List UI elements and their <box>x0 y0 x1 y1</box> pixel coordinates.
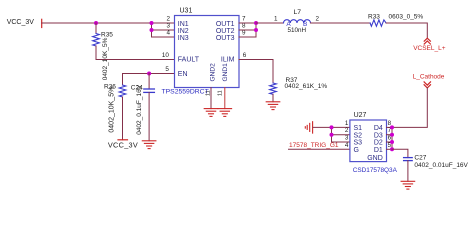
wire L_Cathode to U27 drain bus <box>392 88 427 128</box>
resistor R35 <box>93 23 114 80</box>
svg-text:0402_0.01uF_16V: 0402_0.01uF_16V <box>414 162 468 169</box>
svg-text:VCSEL_L+: VCSEL_L+ <box>413 45 446 52</box>
wire pin2 stub IN1 <box>152 22 175 24</box>
svg-text:11: 11 <box>205 90 211 96</box>
svg-text:17578_TRIG_G1: 17578_TRIG_G1 <box>289 142 339 149</box>
svg-text:OUT2: OUT2 <box>216 28 235 35</box>
junction dot IN bus row2 <box>150 28 154 32</box>
wire pin6 stub D2 <box>387 141 393 143</box>
wire pin9 stub OUT3 <box>239 36 256 38</box>
wire EN pin5 row <box>123 73 175 75</box>
off-page connector VCSEL_L+ <box>413 38 446 52</box>
svg-text:IN1: IN1 <box>178 21 189 28</box>
wire pin3 stub IN2 <box>152 29 175 31</box>
svg-text:4: 4 <box>345 142 349 149</box>
svg-text:10: 10 <box>162 52 170 59</box>
junction dot D bus row2 <box>390 133 394 137</box>
svg-text:VCC_3V: VCC_3V <box>7 19 35 26</box>
ground (left of U27, earth style) <box>305 122 312 133</box>
wire OUT bus vertical <box>255 23 257 37</box>
transistor U27 (MOSFET CSD17578Q3A) <box>350 112 398 174</box>
svg-text:S2: S2 <box>354 132 363 139</box>
svg-text:0402_61K_1%: 0402_61K_1% <box>285 83 328 90</box>
wire pin4 stub IN3 <box>152 36 175 38</box>
junction dot S bus row2 <box>330 133 334 137</box>
junction dot IN bus row1 <box>150 21 154 25</box>
svg-text:3: 3 <box>166 23 170 30</box>
svg-text:TPS2559DRCT: TPS2559DRCT <box>162 89 209 96</box>
svg-text:D4: D4 <box>374 125 383 132</box>
wire ground to S pins bus <box>313 126 350 128</box>
svg-text:U31: U31 <box>180 7 193 14</box>
wire R35 to FAULT pin10 <box>96 59 175 61</box>
svg-text:3: 3 <box>345 135 349 142</box>
svg-text:C27: C27 <box>414 155 426 162</box>
svg-text:ILIM: ILIM <box>221 57 235 64</box>
svg-text:0402_0.1uF_16V: 0402_0.1uF_16V <box>136 84 143 135</box>
wire pin7 stub D3 <box>387 134 393 136</box>
ground (below C24) <box>142 141 156 149</box>
svg-text:8: 8 <box>242 23 246 30</box>
svg-text:L7: L7 <box>294 9 302 16</box>
svg-text:GND: GND <box>367 155 383 162</box>
svg-text:1: 1 <box>345 120 349 127</box>
svg-text:4: 4 <box>166 30 170 37</box>
wire pin8 stub D4 <box>387 126 393 128</box>
wire VCC_3V to IN bus <box>42 22 152 24</box>
wire ILIM pin6 to R37 <box>239 60 273 84</box>
svg-text:6: 6 <box>243 52 247 59</box>
svg-text:L_Cathode: L_Cathode <box>413 74 445 81</box>
svg-text:GND1: GND1 <box>222 63 229 82</box>
ground (below GND2) <box>204 109 218 117</box>
svg-text:EN: EN <box>178 71 188 78</box>
svg-text:11: 11 <box>217 90 223 96</box>
wire pin7 stub OUT1 <box>239 22 256 24</box>
IC U31 (TPS2559DRCT load switch) <box>162 7 240 95</box>
wire L7 to R33 <box>311 22 371 24</box>
svg-text:S3: S3 <box>354 140 363 147</box>
svg-text:2: 2 <box>166 16 170 23</box>
svg-text:0402_10K_5%: 0402_10K_5% <box>109 87 116 133</box>
wire net 17578_TRIG_G1 to G pin <box>289 148 350 150</box>
svg-text:510nH: 510nH <box>288 27 307 34</box>
junction dot OUT bus row1 <box>254 21 258 25</box>
svg-text:CSD17578Q3A: CSD17578Q3A <box>353 167 398 174</box>
svg-text:0603_0_5%: 0603_0_5% <box>389 13 424 20</box>
svg-text:D1: D1 <box>374 147 383 154</box>
wire R33 to VCSEL_L+ <box>386 23 427 38</box>
junction dot C24/EN wire <box>147 72 151 76</box>
svg-text:FAULT: FAULT <box>178 57 200 64</box>
ground (below R37) <box>266 102 280 110</box>
off-page connector L_Cathode <box>413 74 445 88</box>
svg-text:IN3: IN3 <box>178 35 189 42</box>
svg-text:9: 9 <box>242 30 246 37</box>
svg-text:D3: D3 <box>374 132 383 139</box>
ground (below C27) <box>401 181 415 189</box>
svg-text:2: 2 <box>316 16 320 23</box>
wire pin8 stub OUT2 <box>239 29 256 31</box>
ground (below GND1) <box>218 109 232 117</box>
svg-text:2: 2 <box>345 127 349 134</box>
resistor R33 <box>368 13 423 26</box>
junction dot S bus row1 <box>330 125 334 129</box>
svg-text:0402_10K_5%: 0402_10K_5% <box>102 37 109 80</box>
svg-text:IN2: IN2 <box>178 28 189 35</box>
svg-text:VCC_3V: VCC_3V <box>108 140 138 149</box>
svg-text:D2: D2 <box>374 140 383 147</box>
wire pin3 stub S3 <box>332 141 350 143</box>
wire D bus to C27 <box>392 149 408 157</box>
junction dot R35/VCC wire <box>94 21 98 25</box>
svg-text:R33: R33 <box>368 13 380 20</box>
svg-text:S1: S1 <box>354 125 363 132</box>
svg-text:GND2: GND2 <box>209 63 216 82</box>
wire IN bus vertical <box>151 23 153 37</box>
wire D bus vertical <box>391 127 393 149</box>
svg-text:U27: U27 <box>354 112 367 119</box>
svg-text:OUT1: OUT1 <box>216 21 235 28</box>
wire pin2 stub S2 <box>332 134 350 136</box>
wire OUT bus to L7 <box>256 22 284 24</box>
resistor R36 <box>104 74 126 140</box>
power symbol VCC_3V (top left) <box>41 19 43 27</box>
power symbol VCC_3V (below R36) <box>118 139 128 141</box>
svg-text:OUT3: OUT3 <box>216 35 235 42</box>
svg-text:R35: R35 <box>101 32 113 39</box>
inductor L7 <box>284 9 311 34</box>
wire S bus vertical <box>331 127 333 142</box>
svg-text:G: G <box>354 147 359 154</box>
capacitor C27 <box>404 155 469 182</box>
svg-text:1: 1 <box>274 16 278 23</box>
junction dot D bus row4 <box>390 147 394 151</box>
junction dot OUT bus row2 <box>254 28 258 32</box>
resistor R37 <box>270 77 328 102</box>
wire GND1 pin stub <box>224 88 226 109</box>
svg-text:5: 5 <box>165 66 169 73</box>
capacitor C24 <box>131 74 155 141</box>
svg-text:7: 7 <box>242 16 246 23</box>
junction dot D bus row3 <box>390 140 394 144</box>
wire GND2 pin stub <box>210 88 212 109</box>
junction dot D bus row1 <box>390 125 394 129</box>
wire pin5 stub D1 <box>387 148 393 150</box>
